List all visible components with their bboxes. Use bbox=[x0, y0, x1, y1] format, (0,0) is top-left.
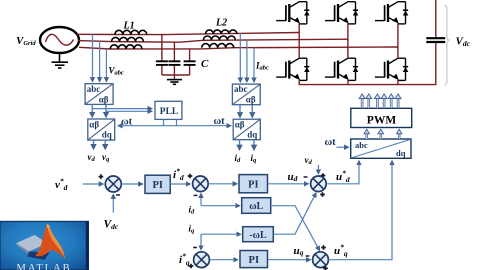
svg-text:ωL: ωL bbox=[249, 201, 263, 212]
summer S5 bbox=[313, 252, 329, 268]
wire leg C midpoint bbox=[397, 23, 399, 59]
transistor Q6 (bottom leg C) bbox=[375, 58, 408, 80]
wire PI3 to S5 bbox=[268, 259, 311, 261]
MATLAB membrane shadow bbox=[28, 252, 50, 261]
svg-text:abc: abc bbox=[234, 84, 248, 94]
wire iq to minus-omega-L bbox=[201, 233, 240, 235]
summer S2 bbox=[193, 176, 209, 192]
wire PI1 to S2 bbox=[170, 183, 190, 185]
block alphabeta-to-dq (voltage) bbox=[88, 119, 115, 140]
wire PWM gate arrows bbox=[359, 94, 401, 108]
wire id iq outputs bbox=[239, 140, 241, 150]
capacitor bank C bbox=[156, 61, 196, 65]
block PI3 bbox=[240, 251, 268, 268]
ground (under source) bbox=[52, 53, 69, 68]
wire Vdc to S1 bbox=[112, 195, 114, 213]
wire id to omega-L bbox=[201, 205, 239, 207]
wire dq-abc to PWM arrows bbox=[364, 129, 402, 139]
wire S3 to PI3 bbox=[209, 259, 237, 261]
wire to PLL bbox=[92, 108, 151, 110]
MATLAB membrane wing side bbox=[16, 243, 29, 254]
svg-text:abc: abc bbox=[87, 84, 101, 94]
transistor Q4 (bottom leg B) bbox=[325, 58, 358, 80]
wire PI2 to S4 bbox=[268, 183, 309, 185]
wire omega-t stub bbox=[337, 146, 349, 148]
svg-text:ωt: ωt bbox=[325, 137, 337, 148]
transistor Q3 (top leg B) bbox=[325, 2, 358, 24]
svg-text:PWM: PWM bbox=[367, 114, 397, 126]
svg-text:ωt: ωt bbox=[121, 117, 133, 128]
transistor Q1 (top leg A) bbox=[276, 2, 309, 24]
sign plus S5 bottom bbox=[323, 266, 328, 270]
sign plus S3 bbox=[189, 264, 194, 269]
svg-text:PLL: PLL bbox=[160, 107, 178, 117]
block dq-to-abc bbox=[351, 139, 411, 158]
svg-text:L2: L2 bbox=[215, 18, 227, 29]
summer S4 bbox=[311, 176, 327, 192]
svg-text:αβ: αβ bbox=[89, 119, 99, 129]
wire omega-t bus bbox=[118, 125, 163, 127]
wire cap taps bbox=[162, 34, 190, 79]
sign minus S1 bbox=[116, 194, 120, 196]
block PI1 bbox=[145, 175, 170, 193]
svg-text:PI: PI bbox=[249, 255, 260, 266]
wire DC- bus bbox=[299, 43, 436, 85]
block abc-to-alphabeta (current) bbox=[232, 84, 260, 105]
wire PLL legs bbox=[163, 119, 165, 125]
wire omega-L cross to S5 bbox=[271, 206, 320, 251]
voltage source V_Grid bbox=[40, 27, 79, 53]
inductor L1 bbox=[110, 30, 147, 49]
transistor Q2 (bottom leg A) bbox=[276, 58, 309, 80]
svg-text:PI: PI bbox=[152, 180, 163, 191]
sign plus S2 bbox=[188, 174, 193, 179]
sign minus S2 bbox=[194, 194, 198, 196]
bracket Vdc bbox=[444, 5, 449, 85]
summer S1 bbox=[105, 176, 121, 192]
inductor L2 bbox=[202, 30, 237, 48]
svg-text:PI: PI bbox=[248, 180, 259, 191]
sign plus S4 top bbox=[321, 173, 326, 178]
wire S4 to dq-abc bbox=[326, 161, 359, 184]
wire phase B bbox=[78, 39, 348, 42]
MATLAB membrane flame bbox=[35, 224, 65, 258]
wire vd to S4 bbox=[317, 165, 319, 174]
MATLAB membrane wing bbox=[16, 235, 48, 252]
svg-text:-ωL: -ωL bbox=[249, 230, 267, 241]
wire id feedback bbox=[200, 194, 202, 206]
block omega-L bbox=[242, 198, 271, 214]
block abc-to-alphabeta (voltage) bbox=[85, 84, 113, 105]
transistor Q5 (top leg C) bbox=[375, 2, 408, 24]
sign plus S1 bbox=[99, 174, 104, 179]
svg-text:C: C bbox=[201, 58, 209, 70]
block minus-omega-L bbox=[243, 227, 274, 242]
capacitor Cdc bbox=[426, 38, 445, 42]
block alphabeta-to-dq (current) bbox=[233, 119, 260, 140]
wire S5 to dq-abc bbox=[328, 161, 392, 260]
block PI2 bbox=[239, 175, 268, 193]
ground (under capacitors) bbox=[167, 80, 182, 85]
svg-text:MATLAB: MATLAB bbox=[17, 263, 72, 270]
wire DC+ link bbox=[435, 0, 437, 37]
sign minus S4 bbox=[304, 176, 308, 178]
wire vdref to S1 bbox=[83, 183, 103, 185]
svg-text:L1: L1 bbox=[123, 21, 135, 32]
svg-text:αβ: αβ bbox=[246, 95, 256, 105]
block PLL bbox=[155, 101, 182, 119]
svg-text:abc: abc bbox=[355, 140, 368, 150]
sign plus S5 top bbox=[321, 245, 326, 250]
svg-text:αβ: αβ bbox=[235, 120, 245, 130]
svg-text:ωt: ωt bbox=[214, 116, 226, 127]
summer S3 bbox=[194, 252, 210, 268]
wire S2 to PI2 bbox=[208, 183, 237, 185]
sign plus S4 bottom bbox=[320, 192, 325, 197]
wire vd vq outputs bbox=[93, 140, 95, 149]
wire leg A midpoint bbox=[298, 23, 300, 59]
sign minus S3 bbox=[193, 247, 197, 249]
svg-text:αβ: αβ bbox=[99, 94, 109, 104]
wire V alpha/beta arrows bbox=[91, 104, 93, 116]
wire I alpha/beta arrows bbox=[239, 105, 241, 117]
wire Iabc taps bbox=[240, 33, 254, 81]
wire phase A bbox=[77, 33, 299, 35]
wire leg B midpoint bbox=[347, 23, 349, 59]
svg-text:dq: dq bbox=[396, 148, 406, 158]
wire minus-omega-L cross to S4 bbox=[273, 193, 316, 234]
svg-text:dq: dq bbox=[102, 130, 112, 140]
block PWM bbox=[351, 108, 412, 127]
wire S1 to PI1 bbox=[121, 183, 142, 185]
wire Vabc taps bbox=[93, 34, 107, 81]
wire phase C bbox=[79, 47, 398, 49]
sign minus S5 bbox=[306, 255, 310, 257]
svg-text:dq: dq bbox=[247, 129, 257, 139]
MATLAB logo box bbox=[0, 221, 89, 270]
wire iq feedback bbox=[200, 234, 202, 249]
